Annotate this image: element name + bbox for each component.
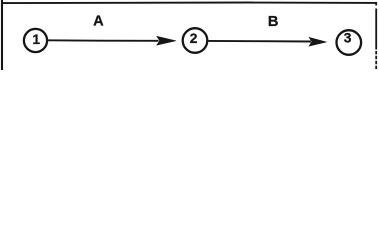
svg-text:1: 1 xyxy=(32,32,40,47)
svg-text:A: A xyxy=(93,14,104,30)
node 1 circle xyxy=(24,29,47,52)
svg-text:2: 2 xyxy=(190,31,198,46)
border top xyxy=(1,2,377,5)
border right xyxy=(375,2,377,46)
svg-text:3: 3 xyxy=(344,30,352,45)
svg-text:B: B xyxy=(268,14,279,30)
node 2 circle xyxy=(183,28,208,53)
border left xyxy=(1,0,3,70)
arrowhead A xyxy=(157,36,176,45)
wire arrow A shaft xyxy=(48,39,159,42)
arrowhead B xyxy=(309,37,327,46)
node 3 circle xyxy=(337,30,362,55)
wire arrow B shaft xyxy=(208,40,311,43)
